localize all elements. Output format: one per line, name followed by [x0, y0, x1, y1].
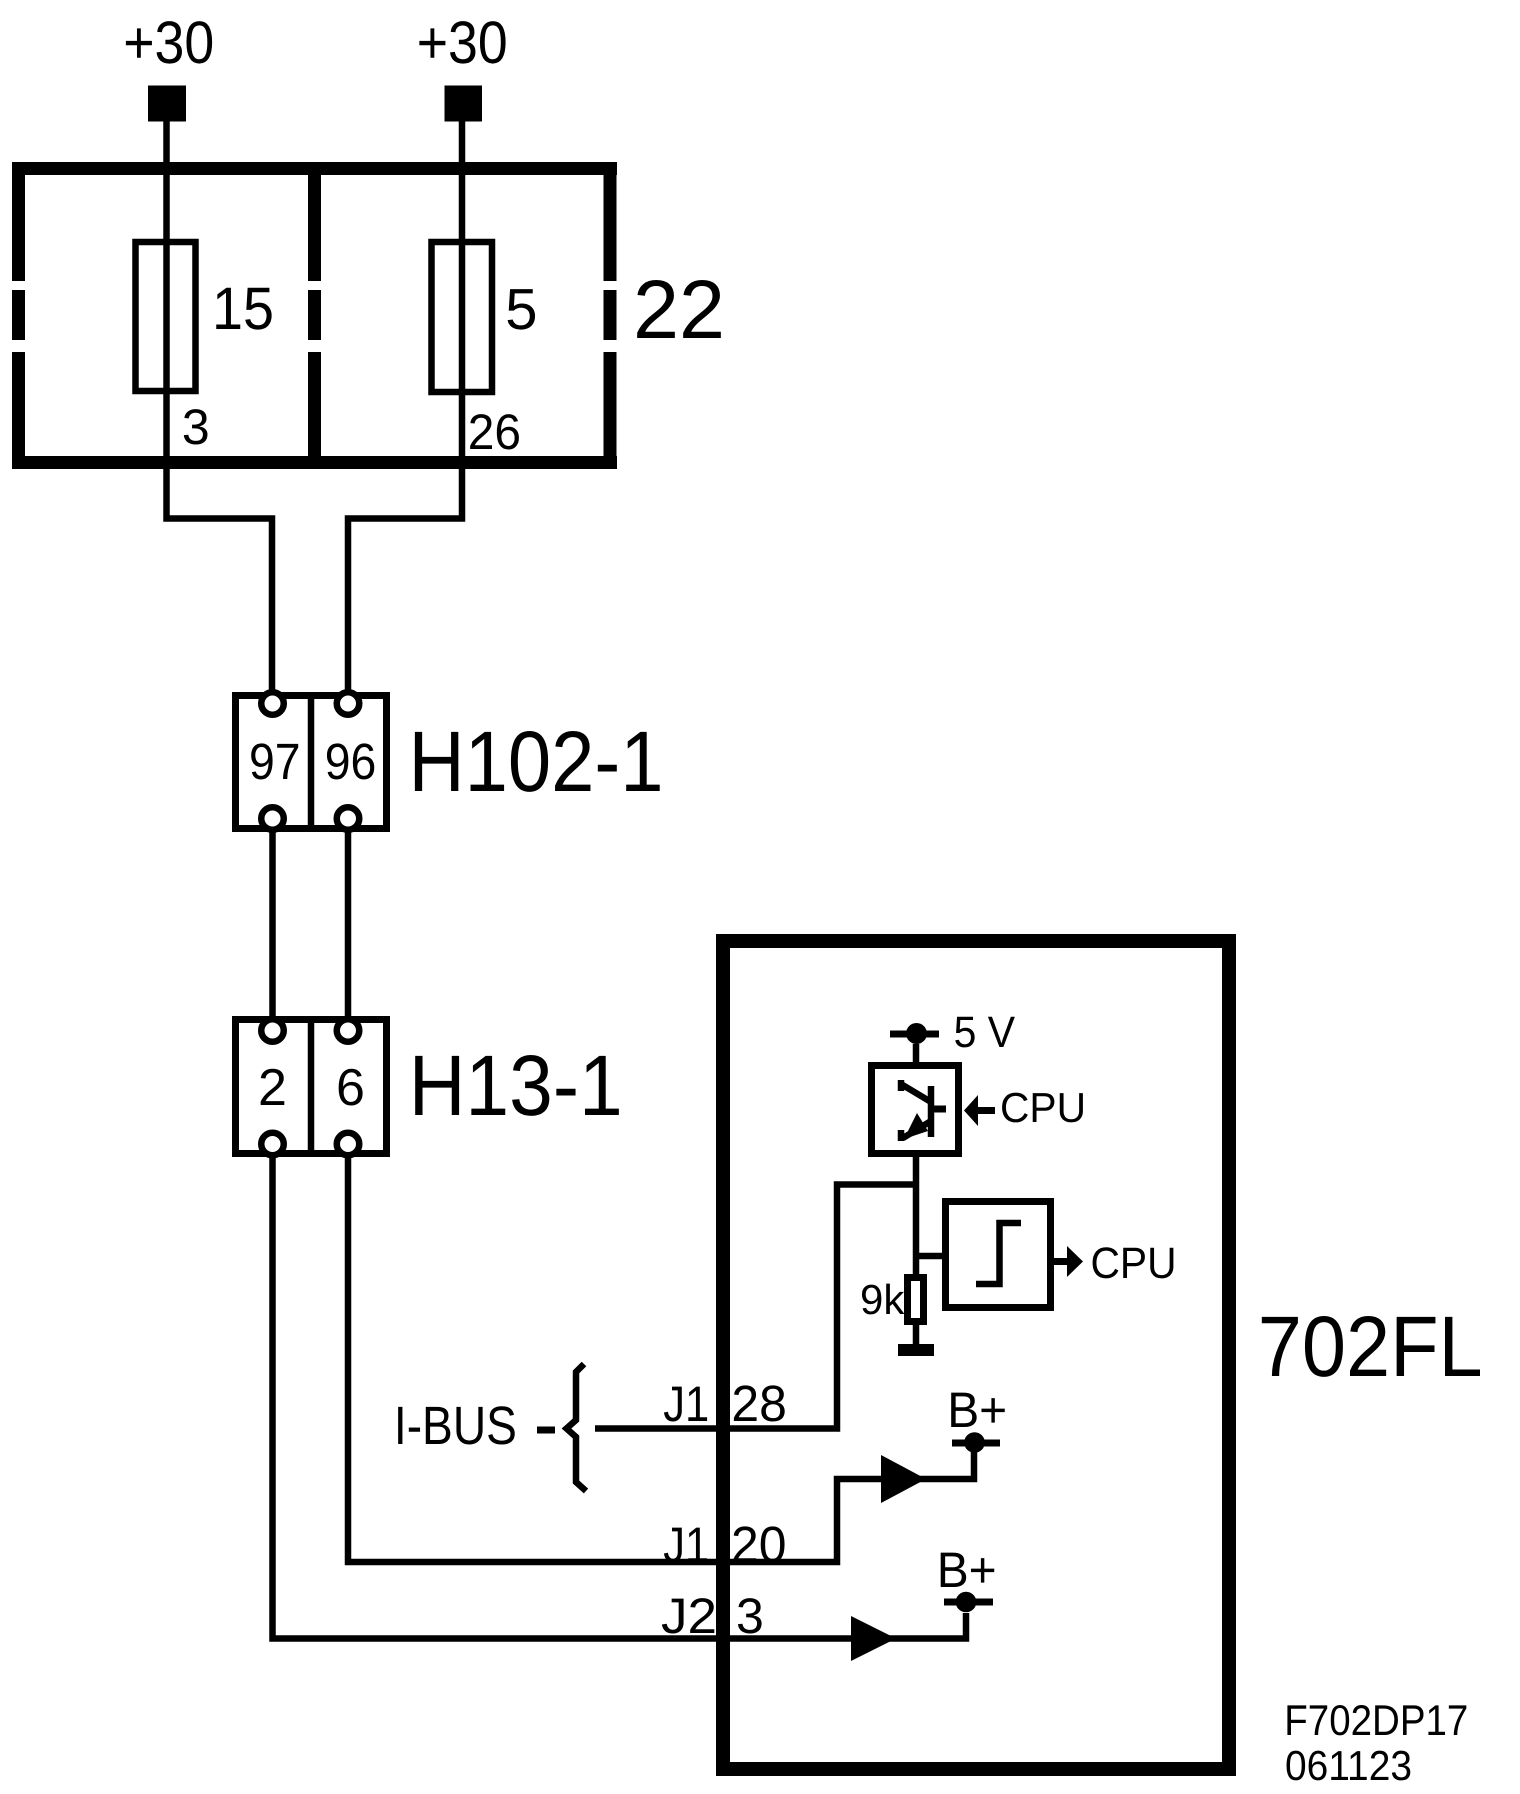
svg-text:6: 6	[336, 1059, 365, 1117]
svg-text:F702DP17: F702DP17	[1284, 1697, 1468, 1745]
5V supply wire stub	[890, 1031, 939, 1038]
wire pin 97 to pin 2 (between connectors)	[269, 828, 276, 1020]
fusebox 22 bottom border	[12, 456, 617, 469]
diode D1 (J1-20 to B+)	[881, 1455, 926, 1503]
I-BUS brace	[567, 1364, 587, 1491]
connector H102-1 pin 97 circle bottom	[261, 807, 284, 830]
svg-text:2: 2	[258, 1059, 287, 1117]
wire pin 6 down to J1 pin 20 and diode to B+	[348, 1152, 974, 1562]
transistor base stub to CPU	[931, 1106, 946, 1113]
wire from +30 right through fuse 5 down to crossover and connector pin 96	[348, 121, 462, 697]
svg-text:3: 3	[182, 399, 210, 455]
node +30 (left) terminal square	[148, 86, 186, 122]
connector H102-1 pin 96 circle top	[337, 692, 360, 715]
transistor base bar	[928, 1086, 935, 1137]
wire pin 96 to pin 6 (between connectors)	[345, 828, 352, 1020]
connector H102-1 pin 97 circle top	[261, 692, 284, 715]
connector H13-1 pin 2 circle top	[261, 1019, 284, 1042]
svg-text:22: 22	[633, 263, 725, 356]
wire resistor to ground	[913, 1325, 920, 1346]
connector H13-1 divider	[308, 1016, 315, 1157]
B+ node 1 bar	[952, 1440, 1000, 1447]
svg-text:H102-1: H102-1	[409, 714, 664, 810]
transistor collector lead	[901, 1080, 931, 1102]
svg-text:+30: +30	[123, 9, 214, 76]
wire pin 2 down to J2 pin 3 and diode to B+	[273, 1152, 967, 1639]
schmitt output wire	[1054, 1258, 1068, 1265]
connector H13-1 pin 6 circle top	[337, 1019, 360, 1042]
fusebox 22 right border (dashed)	[604, 162, 617, 281]
B+ node 2 dot	[956, 1592, 977, 1613]
transistor emitter arrowhead	[904, 1113, 928, 1139]
svg-text:28: 28	[731, 1375, 787, 1432]
svg-text:H13-1: H13-1	[409, 1038, 623, 1134]
svg-text:I-BUS: I-BUS	[394, 1396, 517, 1456]
node +30 (right) terminal square	[445, 86, 483, 122]
connector H102-1 pin 96 circle bottom	[337, 807, 360, 830]
svg-text:15: 15	[212, 275, 274, 342]
fusebox 22 left border (dashed)	[12, 162, 25, 281]
connector H102-1 divider	[308, 692, 315, 832]
svg-text:3: 3	[736, 1588, 764, 1644]
svg-text:J1: J1	[663, 1376, 709, 1432]
fusebox 22 middle divider (dashed)	[308, 162, 321, 281]
wire optocoupler to resistor 9k	[913, 1157, 920, 1277]
connector H102-1 body	[236, 696, 387, 829]
svg-text:J2: J2	[661, 1588, 717, 1644]
svg-text:97: 97	[249, 733, 301, 790]
resistor 9k body	[908, 1278, 924, 1322]
svg-text:5: 5	[505, 277, 537, 342]
svg-text:9k: 9k	[860, 1276, 905, 1323]
connector H13-1 body	[236, 1020, 387, 1154]
svg-text:5 V: 5 V	[954, 1008, 1016, 1057]
connector H13-1 pin 6 circle bottom	[337, 1133, 360, 1156]
ground symbol	[898, 1344, 934, 1356]
B+ node 1 dot	[964, 1432, 985, 1453]
svg-text:CPU: CPU	[1091, 1239, 1177, 1288]
diode D2 (J2-3 to B+)	[851, 1616, 896, 1661]
svg-text:B+: B+	[937, 1542, 997, 1598]
svg-text:CPU: CPU	[1000, 1084, 1086, 1131]
transistor emitter lead	[901, 1121, 931, 1141]
schmitt trigger step symbol	[976, 1223, 1021, 1284]
wire node to schmitt trigger input	[916, 1253, 945, 1260]
5V supply dot	[906, 1023, 927, 1044]
svg-text:702FL: 702FL	[1258, 1299, 1483, 1395]
svg-text:96: 96	[325, 733, 377, 790]
wire 5V dot to optocoupler	[913, 1044, 920, 1065]
fuse 5 body	[432, 242, 493, 392]
wire from +30 left through fuse 15 down to crossover and connector pin 97	[167, 121, 273, 697]
svg-text:+30: +30	[417, 9, 508, 76]
CPU arrow (from schmitt)	[1067, 1246, 1083, 1277]
ECU 702FL box	[723, 941, 1229, 1769]
fusebox 22 top border	[12, 162, 617, 175]
B+ node 2 bar	[944, 1599, 993, 1606]
fuse 15 body	[136, 242, 196, 391]
wire I-BUS to J1 pin 28 and up to pull-up node	[595, 1185, 916, 1429]
optocoupler box U1	[872, 1066, 959, 1154]
CPU arrow tail	[978, 1107, 995, 1114]
connector H13-1 pin 2 circle bottom	[261, 1133, 284, 1156]
svg-text:26: 26	[468, 404, 521, 460]
svg-text:J1: J1	[663, 1517, 709, 1573]
I-BUS dash	[537, 1427, 555, 1434]
svg-text:B+: B+	[947, 1382, 1007, 1438]
CPU arrow (into optocoupler)	[964, 1095, 978, 1126]
svg-text:20: 20	[731, 1516, 787, 1573]
schmitt trigger box	[946, 1202, 1051, 1308]
svg-text:061123: 061123	[1285, 1742, 1412, 1789]
